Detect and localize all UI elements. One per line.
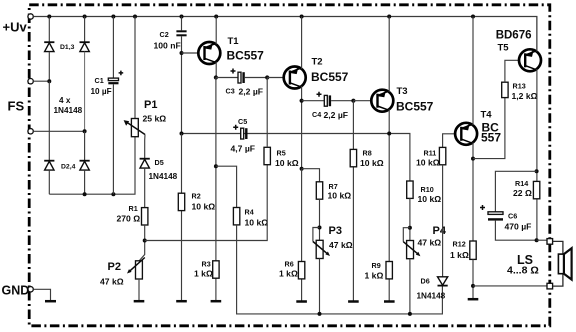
node rail-C2 <box>180 15 184 19</box>
node rail-C1 <box>111 15 115 19</box>
svg-text:100 nF: 100 nF <box>154 41 181 51</box>
svg-text:R11: R11 <box>424 149 437 158</box>
wire R13 to T5 base <box>505 60 525 82</box>
potentiometer P4 <box>403 225 447 259</box>
diode D6 <box>417 277 448 301</box>
svg-text:R14: R14 <box>515 179 528 188</box>
svg-text:BC557: BC557 <box>396 100 434 114</box>
svg-text:D5: D5 <box>155 158 164 167</box>
node R4 branch <box>214 164 218 168</box>
wire P4 to bottom bus <box>409 259 411 314</box>
resistor R4 <box>233 208 268 228</box>
wire D3 column top <box>84 17 86 43</box>
terminal LS bottom <box>547 283 553 289</box>
wire P1 wiper to D5 <box>144 135 146 159</box>
svg-text:1N4148: 1N4148 <box>149 172 178 181</box>
potentiometer P2 <box>100 258 145 287</box>
resistor R12 <box>450 240 476 261</box>
wire R8 column <box>352 101 354 301</box>
wire T5 emitter <box>536 17 538 52</box>
svg-text:T2: T2 <box>312 57 323 68</box>
wire R5 top to C3 node <box>266 78 268 148</box>
svg-text:4,7 µF: 4,7 µF <box>231 144 256 154</box>
resistor R5 <box>264 147 299 168</box>
node P3 bottom <box>318 312 322 316</box>
capacitor C1 <box>91 71 124 96</box>
wire T2 emitter <box>301 17 303 69</box>
wire T3 base <box>353 100 377 102</box>
node rail-T3 emitter <box>387 15 391 19</box>
svg-text:P2: P2 <box>108 261 121 273</box>
node R7 branch <box>300 167 304 171</box>
capacitor C5 <box>231 117 256 154</box>
wire C6 bottom branch <box>495 221 536 241</box>
svg-text:C5: C5 <box>238 117 247 126</box>
speaker <box>553 241 572 286</box>
resistor R2 <box>178 192 215 212</box>
wire to LS terminal lower <box>473 285 547 287</box>
svg-text:270 Ω: 270 Ω <box>117 214 141 224</box>
ground below R8 <box>348 300 359 303</box>
node C3 left <box>214 75 218 79</box>
svg-text:2,2 µF: 2,2 µF <box>324 110 349 120</box>
svg-text:10 kΩ: 10 kΩ <box>328 191 352 201</box>
wire D3 to FS2 node <box>84 52 86 132</box>
capacitor C3 <box>216 69 267 97</box>
svg-text:P4: P4 <box>433 225 447 237</box>
wire P2 to ground <box>138 279 140 301</box>
svg-text:T4: T4 <box>481 110 493 121</box>
svg-text:D6: D6 <box>421 277 430 286</box>
wire FS lower to node <box>33 130 84 132</box>
svg-text:BD676: BD676 <box>496 30 532 42</box>
wire R10 to P4 <box>409 198 411 240</box>
svg-text:557: 557 <box>481 131 501 145</box>
svg-text:R4: R4 <box>245 208 254 217</box>
svg-text:BC557: BC557 <box>311 70 349 84</box>
svg-text:R9: R9 <box>372 261 381 270</box>
terminal FS lower <box>28 129 33 134</box>
node rail-D3 <box>83 15 87 19</box>
resistor R9 <box>365 261 393 281</box>
svg-text:T1: T1 <box>228 36 240 47</box>
svg-text:10 kΩ: 10 kΩ <box>245 218 269 228</box>
wire T2 base <box>267 77 290 79</box>
wire C5 feedback line <box>182 134 410 182</box>
wire T1 base <box>182 52 205 54</box>
svg-text:C1: C1 <box>95 76 104 85</box>
wire R11 to D6 <box>442 165 444 277</box>
wire bias line R1 to R5 <box>145 165 268 241</box>
ground below P2 <box>134 300 145 303</box>
node C6 top <box>535 169 539 173</box>
svg-text:1N4148: 1N4148 <box>54 106 83 115</box>
resistor R6 <box>279 260 305 279</box>
ground below R2 <box>176 300 187 303</box>
svg-text:10 µF: 10 µF <box>91 87 112 96</box>
diode D4 <box>80 161 90 170</box>
terminal +Uv <box>3 14 34 35</box>
node T4 collector R13 branch <box>471 157 475 161</box>
diode D3 <box>80 42 90 51</box>
resistor R14 <box>513 179 540 199</box>
wire C2 to T1 base node <box>181 36 183 133</box>
svg-text:25 kΩ: 25 kΩ <box>143 114 167 124</box>
svg-text:10 kΩ: 10 kΩ <box>192 202 216 212</box>
ground symbol GND <box>45 300 56 303</box>
wire C2 top <box>181 17 183 31</box>
wire T1 collector <box>215 62 217 78</box>
node rail-T1 emitter <box>214 15 218 19</box>
label LS <box>507 253 539 277</box>
svg-text:4...8 Ω: 4...8 Ω <box>507 265 539 277</box>
transistor T2 <box>284 57 349 89</box>
svg-text:47 kΩ: 47 kΩ <box>100 277 124 287</box>
terminal GND <box>2 284 34 298</box>
svg-text:BC557: BC557 <box>227 49 265 63</box>
svg-text:10 kΩ: 10 kΩ <box>416 158 440 168</box>
node R1-P2 <box>143 239 147 243</box>
svg-text:R2: R2 <box>192 192 201 201</box>
svg-text:1 kΩ: 1 kΩ <box>450 250 469 260</box>
wire R2 lower column <box>181 134 183 301</box>
svg-text:47 kΩ: 47 kΩ <box>418 238 442 248</box>
terminal LS top <box>547 239 553 245</box>
node T1 base tap <box>180 51 184 55</box>
wire D2 column <box>48 81 50 161</box>
potentiometer P1 <box>124 99 167 137</box>
node rail-T4 emitter <box>471 15 475 19</box>
svg-text:C2: C2 <box>160 30 169 39</box>
svg-text:GND: GND <box>2 284 30 298</box>
svg-text:R1: R1 <box>129 204 138 213</box>
svg-text:1,2 kΩ: 1,2 kΩ <box>512 91 538 101</box>
svg-text:1 kΩ: 1 kΩ <box>279 269 298 279</box>
node FS1 <box>47 79 51 83</box>
svg-text:1 kΩ: 1 kΩ <box>194 269 213 279</box>
resistor R8 <box>350 149 384 169</box>
diode D2 <box>44 161 54 170</box>
node rail-P1 <box>133 15 137 19</box>
wire C1 top <box>112 17 114 79</box>
node bridge-C1 <box>111 192 115 196</box>
node C4 left <box>300 99 304 103</box>
node C3 right / T2 base <box>265 75 269 79</box>
capacitor C4 <box>302 92 354 120</box>
resistor R10 <box>407 181 442 204</box>
wire GND <box>33 289 50 300</box>
svg-text:R6: R6 <box>285 260 294 269</box>
ground below R6 <box>296 300 307 303</box>
svg-text:T3: T3 <box>397 86 408 97</box>
svg-text:C4: C4 <box>312 110 321 119</box>
svg-text:P1: P1 <box>144 99 157 111</box>
capacitor C2 <box>154 30 187 51</box>
wire T1 emitter <box>215 17 217 45</box>
svg-text:1N4148: 1N4148 <box>417 292 446 301</box>
node FS2 <box>83 129 87 133</box>
ground below R12 <box>468 298 479 301</box>
svg-text:2,2 µF: 2,2 µF <box>239 87 264 97</box>
wire D5 to R1 <box>144 168 146 208</box>
svg-text:R13: R13 <box>513 82 526 91</box>
transistor T3 <box>371 86 433 114</box>
wire C6 top branch <box>495 171 536 212</box>
node output bottom <box>535 238 539 242</box>
svg-text:D1,3: D1,3 <box>60 44 75 51</box>
wire T5 collector <box>536 69 538 240</box>
wire R4 bottom to bottom bus <box>237 225 443 314</box>
svg-text:R12: R12 <box>453 240 466 249</box>
node P4 top <box>408 226 412 230</box>
svg-text:10 kΩ: 10 kΩ <box>275 158 299 168</box>
node R12 LS branch <box>471 284 475 288</box>
wire R7 branch <box>302 169 320 182</box>
svg-text:R8: R8 <box>363 149 372 158</box>
node bridge-D4 <box>83 192 87 196</box>
svg-text:R5: R5 <box>277 149 286 158</box>
svg-text:R10: R10 <box>421 185 434 194</box>
svg-text:10 kΩ: 10 kΩ <box>360 158 384 168</box>
wire R12 bottom <box>472 259 474 298</box>
capacitor C6 <box>480 205 531 232</box>
svg-text:FS: FS <box>8 99 25 114</box>
diode D5 <box>140 158 178 181</box>
svg-text:1 kΩ: 1 kΩ <box>365 271 384 281</box>
node rail-T2 emitter <box>300 15 304 19</box>
wire R4 branch <box>216 166 237 207</box>
wire T1 collector column to R3 <box>215 78 217 301</box>
diode D1 <box>44 42 54 51</box>
svg-text:P3: P3 <box>329 225 342 237</box>
wire D2 to bridge bottom <box>48 170 50 194</box>
svg-text:D2,4: D2,4 <box>61 164 76 171</box>
node R2 top <box>180 132 184 136</box>
wire R13 branch <box>473 98 505 159</box>
svg-text:470 µF: 470 µF <box>505 222 532 232</box>
resistor R7 <box>316 182 351 201</box>
wire C1 bottom <box>112 84 114 194</box>
resistor R1 <box>117 204 148 225</box>
transistor T1 <box>198 36 264 64</box>
node P4 bottom <box>408 312 412 316</box>
wire top supply rail <box>33 17 537 50</box>
wire FS upper to node <box>33 80 49 82</box>
resistor R11 <box>416 147 446 167</box>
wire R7 to P3 <box>319 199 321 240</box>
wire R6 column <box>301 169 303 301</box>
svg-text:+Uv: +Uv <box>3 20 28 35</box>
resistor R3 <box>194 260 219 279</box>
svg-text:10 kΩ: 10 kΩ <box>418 194 442 204</box>
node rail-D1 <box>47 15 51 19</box>
ground below R9 <box>384 300 395 303</box>
wire T3 emitter <box>388 17 390 93</box>
node P3 top <box>318 226 322 230</box>
wire T3 collector <box>388 109 390 300</box>
svg-text:C6: C6 <box>508 212 517 221</box>
svg-text:T5: T5 <box>498 43 510 54</box>
svg-text:C3: C3 <box>226 87 235 96</box>
resistor R13 <box>502 82 538 102</box>
node C4 right / T3 base / R8 <box>351 99 355 103</box>
svg-text:4 x: 4 x <box>59 96 71 105</box>
transistor T5 <box>496 30 541 72</box>
wire T2 collector <box>301 86 303 169</box>
potentiometer P3 <box>313 225 353 259</box>
ground below R3 <box>211 300 222 303</box>
wire D4 column <box>84 131 86 160</box>
wire T4 base / R11 top <box>443 134 462 148</box>
node T3 collector on feedback line <box>387 132 391 136</box>
wire R1 to node <box>139 225 145 261</box>
wire D1 column top <box>48 17 50 43</box>
svg-text:47 kΩ: 47 kΩ <box>329 240 353 250</box>
wire P1 top <box>134 17 136 119</box>
wire bridge bottom rail <box>49 137 135 195</box>
svg-text:R3: R3 <box>202 260 211 269</box>
wire D4 to bridge bottom <box>84 170 86 194</box>
transistor T4 <box>455 110 501 145</box>
label 4 x 1N4148 <box>54 96 83 115</box>
wire T4 collector <box>472 143 474 242</box>
terminal FS upper <box>8 79 34 114</box>
wire D1 to FS node <box>48 52 50 82</box>
svg-text:22 Ω: 22 Ω <box>513 188 532 198</box>
wire T4 emitter <box>472 17 474 126</box>
wire P3 to bottom bus <box>319 259 321 314</box>
wire output to LS terminal <box>537 239 547 241</box>
